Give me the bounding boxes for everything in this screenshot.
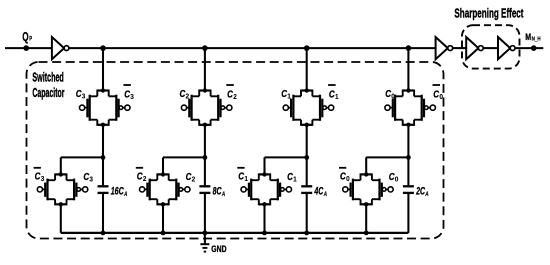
svg-text:0: 0 [439, 92, 443, 101]
svg-text:3: 3 [41, 174, 45, 183]
svg-text:A: A [425, 191, 429, 198]
svg-text:A: A [123, 191, 127, 198]
svg-text:P: P [29, 35, 32, 42]
svg-text:2: 2 [143, 174, 147, 183]
svg-text:Switched: Switched [32, 71, 63, 85]
svg-text:A: A [323, 191, 327, 198]
svg-text:3: 3 [82, 92, 86, 101]
svg-text:Q: Q [22, 30, 29, 44]
svg-text:0: 0 [346, 174, 350, 183]
svg-text:0: 0 [395, 175, 399, 184]
svg-text:0: 0 [391, 92, 395, 101]
svg-text:3: 3 [130, 92, 134, 101]
svg-text:A: A [221, 191, 225, 198]
svg-text:2: 2 [233, 92, 237, 101]
svg-text:2: 2 [192, 175, 196, 184]
svg-text:2: 2 [186, 92, 190, 101]
svg-text:Capacitor: Capacitor [32, 86, 64, 100]
svg-text:GND: GND [211, 244, 227, 254]
svg-text:8C: 8C [213, 185, 223, 197]
svg-text:16C: 16C [111, 185, 125, 197]
svg-text:2C: 2C [415, 185, 425, 197]
svg-text:3: 3 [89, 175, 93, 184]
svg-text:M: M [525, 32, 531, 42]
svg-text:N_H: N_H [532, 37, 541, 43]
svg-text:Sharpening Effect: Sharpening Effect [454, 5, 524, 20]
svg-text:4C: 4C [314, 185, 324, 197]
